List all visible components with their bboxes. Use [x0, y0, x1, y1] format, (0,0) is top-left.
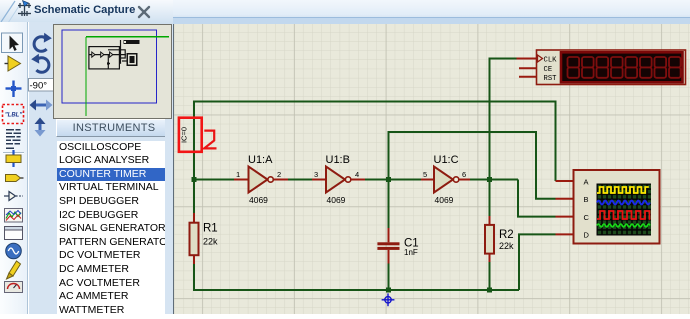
inverter U1:A — [234, 167, 288, 193]
wire: R2 bottom to rail — [489, 262, 491, 290]
junction dot mode — [6, 81, 22, 98]
inverter U1:B — [312, 167, 365, 193]
svg-text:R2: R2 — [499, 229, 514, 241]
-90 box — [29, 79, 54, 92]
h mirror — [34, 104, 48, 107]
annotation: red numeral 2 — [204, 131, 216, 149]
junction at C1 bottom on rail — [386, 288, 391, 293]
resistor R1 — [190, 213, 199, 264]
wire: net A vertical drop to scope — [555, 101, 557, 182]
svg-text:RST: RST — [544, 75, 558, 83]
svg-text:4069: 4069 — [327, 195, 346, 205]
junction at clock node / main wire — [487, 177, 492, 182]
v mirror — [39, 122, 42, 132]
schematic canvas — [173, 24, 690, 314]
svg-text:U1:A: U1:A — [248, 154, 273, 166]
svg-text:U1:C: U1:C — [434, 154, 459, 166]
wire: left vertical (input node to R1 top) — [193, 101, 195, 214]
wire: node to R2 top — [489, 180, 491, 217]
device pin mode — [4, 192, 23, 201]
wire: clock net to display CLK — [489, 58, 518, 60]
svg-text:4069: 4069 — [249, 195, 268, 205]
wire: rail up to scope D — [519, 234, 556, 290]
svg-text:IC=0: IC=0 — [180, 127, 189, 143]
svg-text:5: 5 — [423, 170, 427, 179]
annotation: red highlight box around IC=0 — [179, 118, 202, 152]
svg-text:6: 6 — [462, 170, 466, 179]
current probe mode — [5, 282, 23, 293]
svg-text:B: B — [584, 195, 589, 204]
svg-text:"LBL": "LBL" — [5, 113, 23, 119]
voltage probe mode — [7, 261, 21, 279]
component mode — [5, 56, 21, 71]
wire: clock net vertical — [489, 59, 491, 180]
wire: R1 bottom to ground rail — [193, 264, 195, 291]
svg-text:22k: 22k — [203, 237, 218, 247]
wire: C1 bottom to rail — [388, 263, 390, 291]
wire label mode (selected: red dashed) — [3, 105, 24, 124]
rotate / mirror column — [28, 22, 55, 314]
wire: net A top horizontal — [194, 101, 556, 103]
group separator — [3, 153, 24, 154]
svg-text:22k: 22k — [499, 241, 514, 251]
waveform channel D (green sine) — [597, 224, 650, 227]
resistor R2 — [485, 216, 494, 262]
svg-text:R1: R1 — [203, 223, 218, 235]
inverter U1:C — [421, 167, 470, 193]
tab bar — [0, 0, 690, 24]
svg-text:CLK: CLK — [544, 57, 558, 65]
instruments panel — [56, 119, 172, 137]
wire: input node to U1:A — [194, 179, 235, 181]
wire: bend down to scope C — [518, 180, 556, 217]
oscilloscope U3 — [556, 170, 660, 244]
capacitor C1 — [377, 228, 399, 264]
generator mode — [6, 243, 22, 259]
junction at input node — [192, 177, 197, 182]
waveform channel C (red square) — [597, 211, 651, 219]
svg-text:1: 1 — [236, 170, 240, 179]
svg-text:1nF: 1nF — [404, 248, 418, 257]
tape recorder mode — [5, 227, 23, 240]
junction at R2 bottom on rail — [487, 288, 492, 293]
graph mode — [5, 209, 23, 223]
svg-text:3: 3 — [314, 170, 318, 179]
svg-text:U1:B: U1:B — [326, 154, 350, 166]
svg-text:CE: CE — [544, 66, 553, 74]
svg-text:-90°: -90° — [30, 81, 48, 92]
svg-text:2: 2 — [277, 170, 281, 179]
terminal mode — [6, 175, 24, 182]
junction at net B / main wire — [386, 177, 391, 182]
waveform channel B (blue sine) — [597, 201, 650, 205]
wire: net B vertical (C1 top branch) — [388, 132, 390, 229]
wire: U1:B out to U1:C in — [364, 179, 422, 181]
svg-text:A: A — [584, 177, 589, 186]
overview minimap — [53, 24, 172, 119]
tab slant edges — [1, 1, 15, 22]
selection arrow (pressed) — [2, 33, 23, 53]
wire: U1:C out to node — [469, 179, 518, 181]
subcircuit mode — [6, 150, 21, 167]
counter/timer display U2 — [517, 50, 686, 85]
svg-text:D: D — [584, 231, 590, 240]
wire: bottom rail — [193, 289, 519, 291]
mode toolbar icons — [0, 22, 28, 314]
wire: net B horizontal to scope — [388, 132, 556, 199]
waveform channel A (yellow square) — [597, 187, 649, 193]
origin marker — [382, 293, 395, 306]
wire: U1:A out to U1:B in — [287, 179, 313, 181]
tab icon — [18, 3, 31, 16]
svg-text:C: C — [584, 213, 590, 222]
svg-text:4: 4 — [355, 170, 359, 179]
canvas background — [174, 24, 690, 314]
text script mode — [6, 129, 21, 149]
svg-text:4069: 4069 — [435, 195, 454, 205]
close X — [139, 7, 149, 17]
